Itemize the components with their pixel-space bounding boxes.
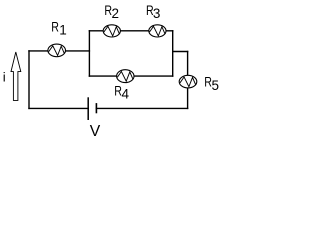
svg-text:3: 3 — [153, 6, 161, 21]
svg-text:1: 1 — [59, 23, 67, 38]
svg-text:2: 2 — [112, 6, 120, 21]
svg-text:5: 5 — [212, 78, 220, 93]
svg-text:4: 4 — [122, 87, 130, 102]
svg-text:i: i — [3, 69, 6, 84]
svg-text:R: R — [51, 19, 59, 35]
svg-text:V: V — [90, 123, 101, 140]
